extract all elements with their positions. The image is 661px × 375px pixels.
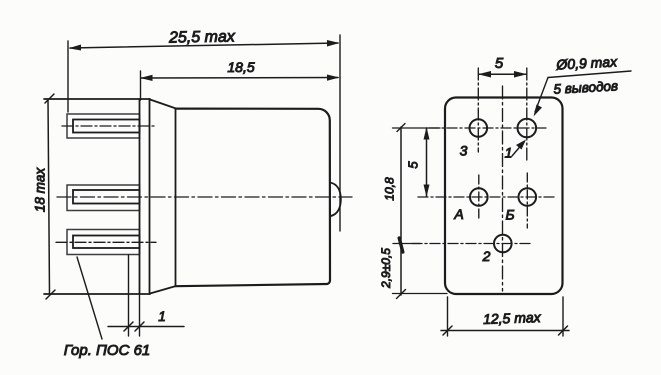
- arrow from label 1 to hole 1: [512, 142, 524, 156]
- svg-text:10,8: 10,8: [383, 177, 397, 201]
- dimension 1 extension line right: [139, 294, 141, 336]
- dimension 18,5 line: [141, 77, 338, 80]
- dimension 1 line: [108, 326, 184, 328]
- tick at row 1: [397, 124, 405, 132]
- hole 3: [470, 119, 488, 137]
- body bottom shoulder slant: [150, 286, 176, 294]
- body top shoulder slant: [150, 100, 176, 109]
- flange top edge with left extension: [44, 98, 150, 100]
- flange bottom edge with left extension: [44, 293, 150, 295]
- svg-text:А: А: [453, 206, 463, 222]
- dimension 12,5 max right extension line: [562, 297, 564, 336]
- tick at row 3: [399, 238, 403, 252]
- row 2 centerline: [418, 196, 557, 198]
- row 3 centerline: [412, 243, 532, 245]
- relay can body outline: [176, 109, 331, 287]
- leader arrowhead at hole 1: [534, 105, 543, 117]
- svg-text:25,5 max: 25,5 max: [168, 28, 236, 46]
- pin A (middle) inner rectangle: [73, 190, 140, 204]
- arrowhead at hole 1 from label 1: [516, 140, 526, 150]
- dimension 18 max bottom tick: [46, 290, 55, 299]
- column centerline through hole 3: [477, 68, 479, 152]
- hole 2: [494, 235, 512, 253]
- column centerline through hole A: [478, 175, 480, 220]
- dimension 25,5 max line: [70, 43, 338, 48]
- hole 1: [518, 119, 537, 138]
- dimension 5 left line: [426, 128, 428, 197]
- dimension 12,5 max line: [441, 330, 569, 332]
- dimension 1 tick left: [124, 322, 133, 331]
- pin 3 (top) outer rectangle: [67, 114, 140, 138]
- tick at bottom edge: [397, 290, 406, 299]
- main vertical centerline: [502, 86, 504, 291]
- svg-text:Гор. ПОС 61: Гор. ПОС 61: [64, 342, 151, 359]
- dimension 1 tick right: [135, 322, 144, 331]
- pin 2 (bottom) outer rectangle: [67, 230, 140, 255]
- dimension 25,5 max left arrowhead: [69, 45, 82, 51]
- dimension 12,5 max right arrowhead: [559, 326, 568, 335]
- svg-text:3: 3: [460, 143, 468, 159]
- dimension 18 max top tick: [45, 94, 54, 103]
- dimension 5 top left arrowhead: [478, 71, 491, 78]
- dimension 12,5 max left extension line: [447, 297, 449, 336]
- sealing bump on can end: [330, 183, 341, 217]
- svg-text:5: 5: [495, 55, 504, 72]
- dimension 25,5/18,5 right extension line: [339, 35, 341, 231]
- dimension 5 top line: [479, 73, 527, 75]
- svg-text:18 max: 18 max: [33, 167, 48, 213]
- svg-text:2: 2: [482, 248, 491, 264]
- svg-text:5: 5: [405, 161, 420, 169]
- note underline for hole diameter: [548, 71, 631, 78]
- dimension 25,5 max right arrowhead: [327, 40, 340, 47]
- dimension 18,5 right arrowhead: [327, 75, 340, 81]
- svg-text:Ø0,9 max: Ø0,9 max: [555, 53, 618, 72]
- dimension 12,5 max left arrowhead: [443, 326, 452, 335]
- pin 2 (bottom) centerline: [56, 241, 156, 243]
- svg-text:2,9±0,5: 2,9±0,5: [379, 248, 393, 289]
- svg-text:18,5: 18,5: [227, 59, 254, 75]
- column centerline through hole 1: [526, 68, 528, 161]
- svg-text:1: 1: [505, 145, 513, 161]
- leader line to solder note: [77, 257, 102, 339]
- row 1 extension line to dims: [393, 127, 441, 129]
- dimension 5 top right arrowhead: [514, 71, 527, 78]
- row 1 centerline: [429, 127, 546, 129]
- leader from note to hole 1: [535, 78, 548, 113]
- dimension 18,5 left arrowhead: [140, 75, 153, 81]
- dimension 18,5 left extension line: [140, 71, 142, 100]
- pin 3 (top) centerline: [62, 125, 156, 127]
- dimension 10,8 and 2,9 shared line: [400, 127, 402, 295]
- svg-text:1: 1: [158, 309, 166, 324]
- bottom edge extension line to dims: [393, 293, 448, 295]
- svg-text:12,5 max: 12,5 max: [483, 309, 542, 327]
- dimension 5 left top arrowhead: [424, 127, 430, 140]
- dimension 1 extension line left: [128, 255, 130, 336]
- pin A (middle) outer rectangle: [67, 185, 140, 211]
- pin 3 (top) inner rectangle: [73, 120, 140, 133]
- column centerline through hole B: [526, 173, 528, 228]
- pinout plate rounded outline: [445, 98, 563, 295]
- body shoulder seam line: [175, 109, 177, 287]
- pin 2 (bottom) inner rectangle: [73, 236, 140, 249]
- svg-text:Б: Б: [505, 207, 514, 223]
- dimension 5 left bottom arrowhead: [424, 185, 430, 198]
- hole B: [519, 188, 537, 206]
- dimension 18 max line: [48, 99, 50, 294]
- dimension 25,5 max left extension line: [67, 41, 69, 112]
- main horizontal centerline: [57, 196, 352, 198]
- relay base plate rear line: [149, 99, 151, 294]
- row 3 extension line to dims: [393, 243, 420, 245]
- hole A: [470, 188, 488, 206]
- relay base plate front line: [139, 99, 141, 294]
